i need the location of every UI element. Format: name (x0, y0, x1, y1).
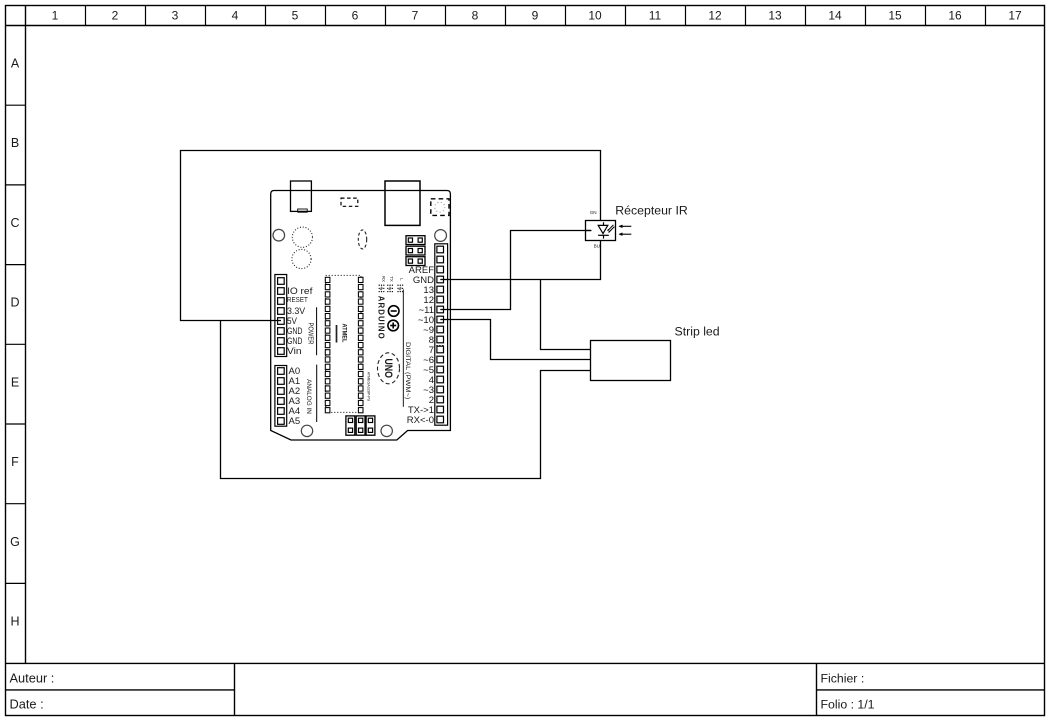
mounting hole bottom-left (301, 425, 312, 436)
svg-text:Strip led: Strip led (675, 324, 720, 338)
svg-text:H: H (10, 615, 19, 629)
UNO dashed oval (378, 353, 400, 384)
microcontroller IC U1 dotted outline (326, 275, 361, 412)
svg-text:14: 14 (828, 9, 842, 23)
ANALOG IN header outline (275, 366, 287, 427)
POWER pin labels (287, 286, 313, 357)
svg-text:TX: TX (389, 276, 394, 282)
svg-text:Vin: Vin (287, 346, 302, 357)
crystal dashed ellipse Y1 (358, 230, 366, 249)
svg-text:Récepteur IR: Récepteur IR (615, 204, 688, 218)
DIGITAL header pads (437, 246, 444, 423)
svg-text:15: 15 (888, 9, 902, 23)
ICSP header 2x3 top right (406, 236, 425, 266)
dashed component outline near top center (341, 198, 358, 206)
svg-text:Fichier :: Fichier : (821, 671, 865, 685)
POWER group bracket (316, 307, 318, 355)
TX LED (387, 285, 393, 293)
power plus symbol (388, 320, 399, 331)
svg-text:ARDUINO: ARDUINO (377, 296, 386, 340)
title block labels (10, 670, 875, 711)
RX LED (379, 285, 385, 293)
row tick lines (6, 105, 26, 583)
svg-text:9: 9 (532, 9, 539, 23)
POWER header outline (275, 275, 287, 357)
svg-text:C: C (10, 216, 19, 230)
svg-text:UNO: UNO (382, 358, 394, 378)
svg-text:ANALOG IN: ANALOG IN (305, 379, 312, 414)
mounting hole top-right (435, 230, 447, 242)
svg-text:RESET: RESET (287, 295, 308, 304)
svg-text:4: 4 (232, 9, 239, 23)
svg-text:D: D (10, 296, 19, 310)
external IR arrows (619, 225, 631, 236)
wire 5V branch to Strip led (221, 321, 591, 479)
board outline (271, 191, 451, 441)
svg-text:11: 11 (649, 9, 662, 23)
svg-text:8: 8 (472, 9, 479, 23)
photodiode D1 (598, 222, 609, 238)
IR receiver module (586, 204, 688, 249)
wire GND branch to Strip led (541, 280, 591, 350)
wire ~10 to Strip led data pin (440, 320, 590, 360)
ICSP header 3x2 bottom (346, 416, 375, 435)
ANALOG IN header pads (278, 368, 285, 425)
L LED (397, 285, 403, 293)
column tick lines (86, 6, 986, 26)
column numbers (52, 9, 1022, 23)
power barrel jack J1 (291, 181, 312, 211)
svg-text:E: E (11, 375, 19, 389)
mounting hole top-left (273, 229, 285, 241)
svg-text:Folio : 1/1: Folio : 1/1 (821, 697, 875, 711)
svg-text:17: 17 (1008, 9, 1022, 23)
dashed square component top right (431, 199, 449, 216)
photodiode incoming light arrows (607, 225, 614, 233)
USB connector J2 (385, 181, 420, 225)
svg-text:1: 1 (52, 9, 59, 23)
ANALOG IN group bracket (316, 365, 318, 422)
DIGITAL header outline (435, 244, 448, 425)
svg-text:A5: A5 (289, 416, 301, 427)
svg-text:6: 6 (352, 9, 359, 23)
ANALOG pin labels (289, 366, 301, 427)
wire 5V net: Arduino 5V pin loop to IR receiver top pin (181, 151, 601, 321)
DIGITAL group bracket (402, 290, 404, 407)
dotted circle inside dashed square (435, 202, 445, 212)
mounting hole bottom-right (381, 425, 392, 436)
IC pads left and right (325, 277, 363, 413)
svg-text:16: 16 (948, 9, 962, 23)
svg-text:B: B (11, 136, 19, 150)
ATMEL logo text (337, 324, 348, 343)
svg-text:ATMEGA328P-PU: ATMEGA328P-PU (366, 372, 370, 402)
capacitor dotted circle C1 (292, 227, 312, 247)
POWER header pads (278, 278, 285, 355)
svg-text:DIGITAL (PWM~): DIGITAL (PWM~) (404, 342, 411, 399)
capacitor dotted circle C2 (292, 249, 311, 268)
svg-text:12: 12 (708, 9, 722, 23)
wire ~11 to IR receiver OUT pin (440, 231, 591, 310)
row letters (10, 56, 20, 628)
svg-text:Auteur :: Auteur : (10, 670, 55, 685)
ON LED dotted marks (436, 345, 443, 346)
svg-text:7: 7 (412, 9, 419, 23)
svg-text:BU: BU (594, 244, 600, 249)
DIGITAL pin labels (407, 265, 434, 426)
svg-text:13: 13 (768, 9, 782, 23)
power minus symbol (388, 306, 399, 317)
svg-text:GN: GN (590, 210, 597, 215)
strip led body (591, 341, 671, 381)
Strip led module (591, 324, 720, 380)
svg-text:2: 2 (112, 9, 119, 23)
svg-text:F: F (11, 455, 19, 469)
svg-text:A: A (11, 56, 20, 70)
svg-text:10: 10 (588, 9, 602, 23)
svg-text:POWER: POWER (307, 323, 314, 345)
svg-text:3: 3 (172, 9, 179, 23)
svg-text:G: G (10, 535, 20, 549)
IR receiver internal pin stub (586, 230, 592, 232)
IR receiver body (586, 221, 616, 241)
wire GND net: IR receiver bottom pin to Arduino GND pin (440, 241, 600, 280)
svg-text:RX: RX (381, 276, 386, 282)
svg-text:Date :: Date : (10, 696, 44, 711)
svg-text:ATMEL: ATMEL (341, 324, 348, 343)
svg-text:5: 5 (292, 9, 299, 23)
Arduino UNO board (271, 181, 451, 440)
svg-text:RX<-0: RX<-0 (407, 415, 434, 426)
